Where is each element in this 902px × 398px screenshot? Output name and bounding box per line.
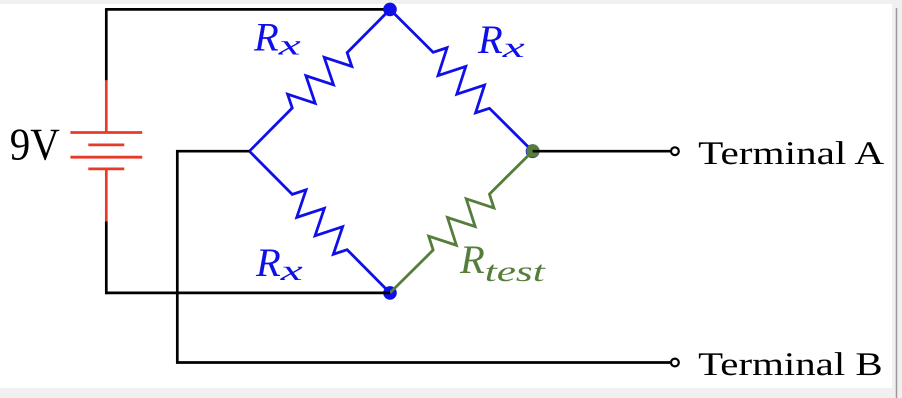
node (right junction, green dot) — [526, 144, 539, 157]
terminal B open circle — [671, 359, 679, 367]
wire (bottom horizontal from battery to bottom node) — [106, 292, 390, 295]
battery V1 short plate 1 — [88, 143, 124, 146]
svg-text:9V: 9V — [10, 119, 60, 170]
svg-text:Terminal B: Terminal B — [698, 347, 883, 383]
resistor R3 (bottom-left Rx) — [249, 151, 390, 293]
wire (top horizontal from battery to top node) — [106, 8, 390, 11]
node (top junction dot) — [383, 3, 397, 17]
node (right junction, blue under) — [526, 144, 540, 158]
resistor Rtest (bottom-right, green) — [390, 151, 533, 293]
svg-text:Terminal A: Terminal A — [698, 136, 884, 172]
resistor R2 (top-right Rx) — [390, 9, 533, 151]
battery V1 (red leads) — [105, 80, 108, 221]
terminal A open circle — [671, 147, 679, 155]
wire (battery bottom black lead) — [105, 222, 108, 295]
battery V1 short plate 2 — [88, 167, 124, 170]
resistor R1 (top-left Rx) — [249, 9, 390, 151]
battery V1 long plate 1 — [70, 131, 142, 134]
scrollbar line — [896, 8, 898, 398]
battery V1 long plate 2 — [70, 156, 142, 159]
wire (right node to Terminal A) — [533, 150, 671, 153]
wire (battery top black lead) — [105, 8, 108, 80]
node (bottom junction dot) — [383, 286, 397, 300]
wire (left node to Terminal B: left, down, right) — [177, 151, 670, 362]
